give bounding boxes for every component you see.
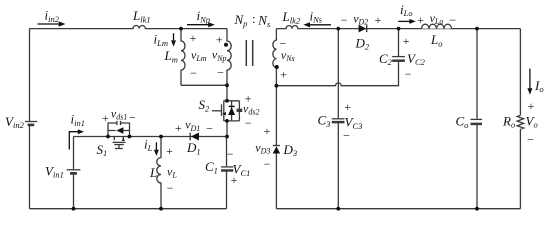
svg-text:+: +: [264, 124, 271, 138]
svg-text:+: +: [344, 100, 351, 114]
svg-text:+: +: [175, 121, 182, 135]
svg-text:−: −: [405, 67, 412, 81]
svg-text:−: −: [167, 181, 174, 195]
svg-text:−: −: [227, 147, 234, 161]
svg-text:iLm: iLm: [154, 32, 169, 48]
svg-text:−: −: [206, 121, 213, 135]
svg-text:+: +: [166, 144, 173, 158]
svg-text::: :: [252, 11, 256, 26]
svg-text:Vin1: Vin1: [45, 163, 64, 179]
svg-text:−: −: [190, 66, 197, 80]
svg-text:+: +: [216, 33, 223, 47]
svg-text:iL: iL: [144, 137, 153, 153]
svg-text:vD1: vD1: [185, 118, 200, 133]
svg-text:vD2: vD2: [353, 11, 368, 26]
svg-text:Llk2: Llk2: [282, 9, 301, 25]
svg-text:iLo: iLo: [400, 2, 413, 18]
svg-text:Ns: Ns: [257, 12, 271, 28]
svg-text:−: −: [341, 13, 348, 27]
svg-text:Vo: Vo: [526, 113, 538, 129]
svg-text:VC2: VC2: [407, 51, 426, 67]
svg-text:−: −: [449, 13, 456, 27]
svg-text:Llk1: Llk1: [132, 8, 151, 24]
svg-text:vL: vL: [167, 164, 177, 179]
svg-text:−: −: [527, 133, 534, 147]
svg-text:vNp: vNp: [212, 48, 227, 63]
svg-text:+: +: [528, 99, 535, 113]
svg-text:+: +: [280, 68, 287, 82]
svg-text:S2: S2: [199, 97, 211, 113]
svg-text:C3: C3: [318, 113, 331, 129]
svg-text:+: +: [417, 13, 424, 27]
svg-text:vD3: vD3: [255, 141, 270, 156]
svg-text:−: −: [280, 36, 287, 50]
svg-text:Io: Io: [534, 78, 544, 94]
svg-text:iin1: iin1: [71, 112, 86, 128]
svg-text:+: +: [102, 111, 109, 125]
svg-text:D1: D1: [186, 140, 201, 156]
svg-text:C1: C1: [205, 159, 218, 175]
svg-text:−: −: [129, 111, 136, 125]
svg-text:−: −: [217, 66, 224, 80]
svg-text:vLo: vLo: [430, 11, 444, 26]
svg-text:Np: Np: [234, 12, 248, 28]
svg-text:iin2: iin2: [45, 8, 60, 24]
svg-text:S1: S1: [97, 142, 108, 158]
svg-text:+: +: [375, 13, 382, 27]
svg-text:Vin2: Vin2: [5, 114, 25, 130]
svg-text:Lo: Lo: [430, 32, 442, 48]
svg-text:Lm: Lm: [164, 48, 178, 64]
svg-text:D2: D2: [355, 35, 370, 51]
svg-text:iNs: iNs: [310, 8, 323, 24]
svg-text:Ro: Ro: [502, 113, 515, 129]
svg-text:−: −: [343, 129, 350, 143]
svg-text:L: L: [149, 165, 157, 180]
svg-text:C2: C2: [379, 51, 393, 67]
svg-text:vds1: vds1: [111, 106, 127, 121]
svg-text:−: −: [245, 116, 252, 130]
svg-text:−: −: [264, 157, 271, 171]
svg-text:Co: Co: [456, 113, 469, 129]
svg-text:+: +: [190, 31, 197, 45]
svg-text:D3: D3: [283, 142, 298, 158]
svg-text:iNp: iNp: [197, 8, 211, 24]
svg-text:+: +: [403, 34, 410, 48]
svg-text:vLm: vLm: [191, 48, 207, 63]
svg-text:+: +: [245, 91, 252, 105]
svg-text:+: +: [231, 173, 238, 187]
